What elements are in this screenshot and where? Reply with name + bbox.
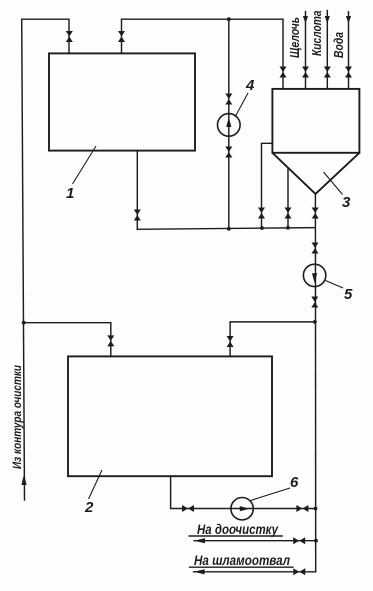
svg-text:6: 6 bbox=[290, 474, 299, 491]
svg-text:Из контура очистки: Из контура очистки bbox=[12, 365, 24, 469]
svg-text:1: 1 bbox=[66, 185, 74, 202]
svg-text:Кислота: Кислота bbox=[309, 11, 324, 57]
svg-text:Щелочь: Щелочь bbox=[287, 17, 302, 58]
svg-text:5: 5 bbox=[344, 286, 353, 303]
svg-text:Вода: Вода bbox=[331, 32, 346, 58]
svg-text:3: 3 bbox=[342, 194, 351, 211]
svg-text:4: 4 bbox=[245, 77, 255, 94]
svg-text:2: 2 bbox=[84, 499, 94, 516]
svg-text:На шламоотвал: На шламоотвал bbox=[194, 552, 290, 568]
svg-text:На доочистку: На доочистку bbox=[197, 522, 279, 537]
